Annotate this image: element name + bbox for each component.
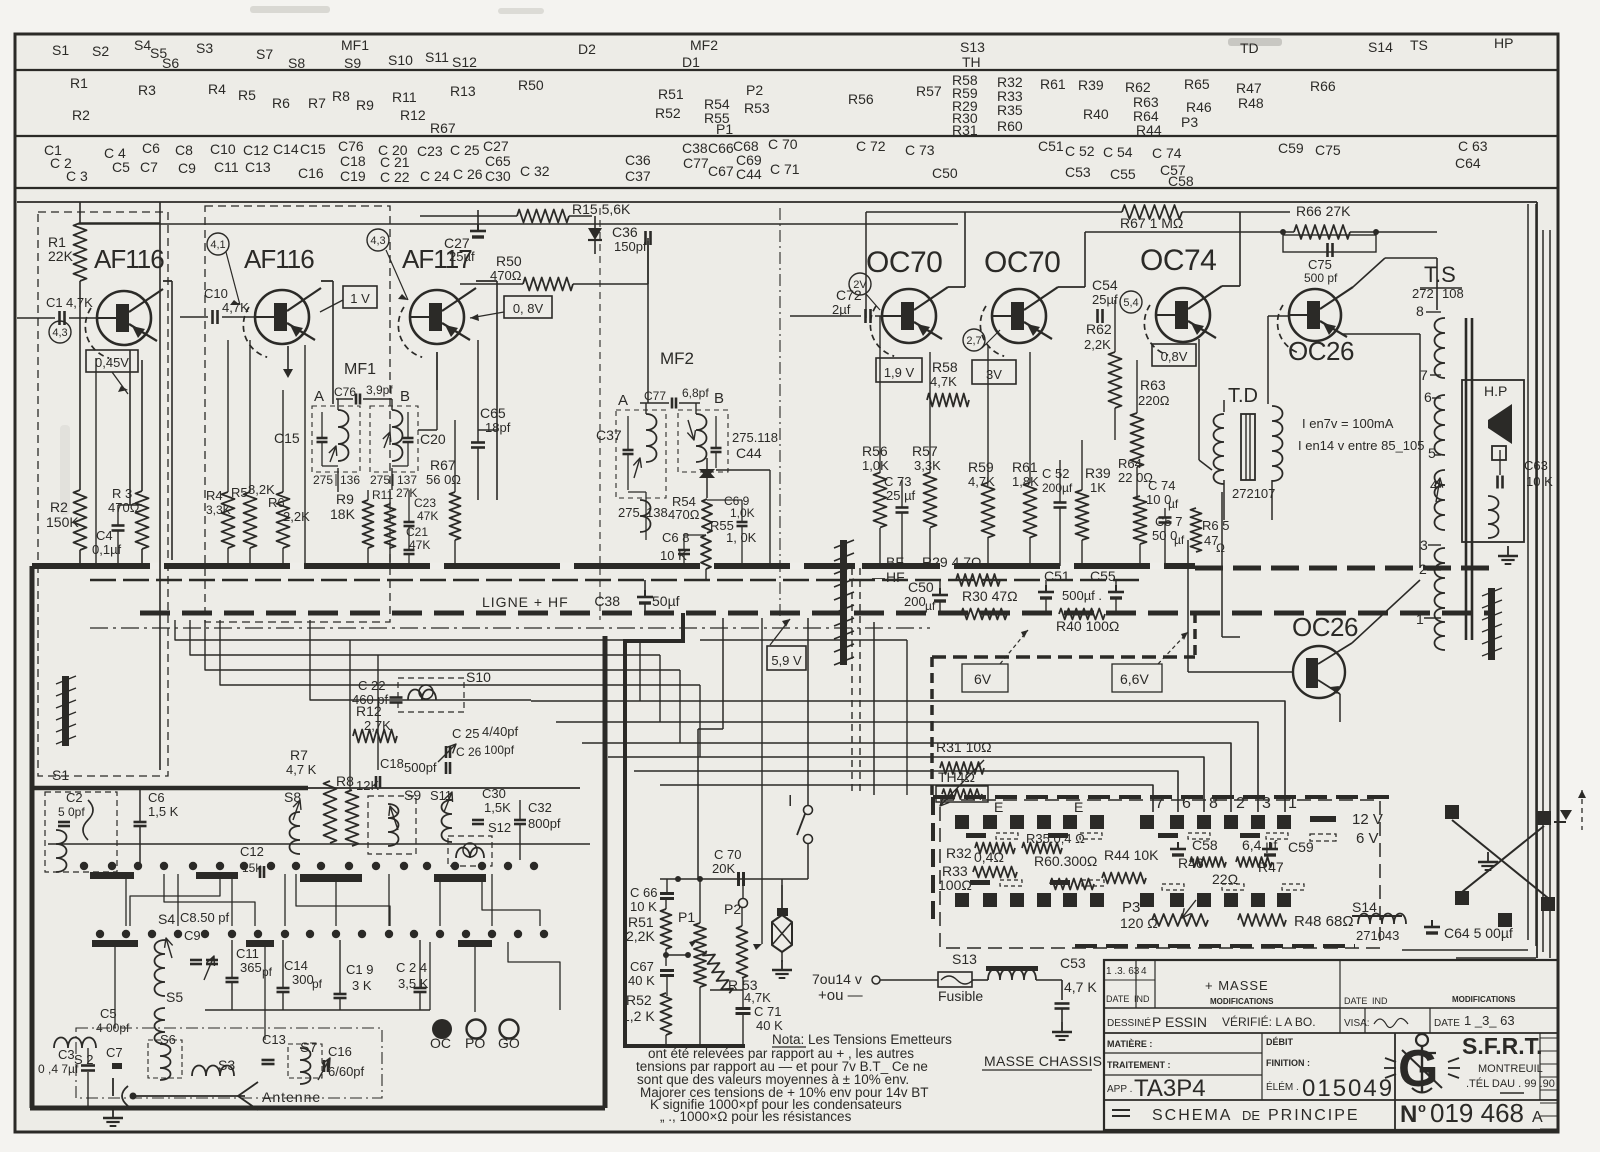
resistor R50 470ohm — [460, 238, 648, 291]
svg-text:T.S: T.S — [1424, 262, 1456, 287]
wire vibrator top — [781, 879, 783, 908]
svg-text:R40: R40 — [1083, 106, 1109, 122]
battery bottom dashed bus — [1075, 944, 1355, 948]
indicator OC dot — [430, 1019, 452, 1051]
svg-text:6 V: 6 V — [1356, 830, 1379, 847]
svg-text:S10: S10 — [388, 52, 413, 68]
svg-text:C 71: C 71 — [754, 1004, 781, 1019]
svg-text:TH4Ω: TH4Ω — [938, 769, 975, 785]
resistor R57 3,3K — [912, 352, 941, 566]
svg-text:R66 27K: R66 27K — [1296, 203, 1351, 219]
svg-text:C18: C18 — [340, 153, 366, 169]
legend 12V — [1310, 811, 1383, 828]
svg-text:108: 108 — [1442, 286, 1464, 301]
svg-text:2,2K: 2,2K — [283, 509, 310, 524]
wire heavy supply bus left — [32, 563, 855, 569]
svg-text:18pf: 18pf — [485, 420, 511, 435]
resistor R5 8,2K — [231, 340, 275, 566]
wire nest l4 — [220, 620, 700, 685]
svg-text:1: 1 — [1288, 795, 1297, 812]
svg-text:R29 4 7Ω: R29 4 7Ω — [922, 554, 982, 570]
svg-text:C38: C38 — [594, 593, 620, 609]
capacitor C14 300pf — [277, 940, 323, 1010]
title MONTREUIL — [1478, 1063, 1543, 1075]
svg-text:4 00pf: 4 00pf — [96, 1021, 130, 1035]
capacitor C67 40K — [628, 959, 674, 996]
wire nest l3 — [205, 620, 680, 670]
svg-text:MF1: MF1 — [344, 361, 376, 378]
svg-text:7: 7 — [1420, 367, 1428, 383]
svg-text:R1: R1 — [70, 75, 88, 91]
wire OC26 emitter down — [1258, 694, 1340, 722]
svg-text:2,2K: 2,2K — [1084, 337, 1111, 352]
wire P1 riser — [698, 618, 762, 879]
pot cage left border — [623, 613, 683, 1046]
band 2 labels R1-R66 — [70, 72, 1336, 138]
svg-text:R50: R50 — [518, 77, 544, 93]
wire staircase to battery col 7 — [660, 785, 1153, 812]
MF2 secondary arrow — [687, 420, 695, 440]
svg-text:R61: R61 — [1012, 459, 1038, 475]
svg-text:470Ω: 470Ω — [668, 507, 700, 522]
svg-text:S5: S5 — [166, 989, 183, 1005]
svg-text:Antenne: Antenne — [262, 1089, 321, 1105]
svg-text:R7: R7 — [308, 95, 326, 111]
wire nest connector v4 — [699, 685, 701, 757]
MF1 primary arrow — [329, 446, 337, 462]
svg-text:271043: 271043 — [1356, 928, 1399, 943]
speaker HP box — [1462, 380, 1524, 542]
capacitor C51 500uf — [1038, 568, 1070, 613]
svg-text:MODIFICATIONS: MODIFICATIONS — [1452, 995, 1516, 1004]
resistor R65 47ohm — [1191, 508, 1230, 555]
label -HF — [872, 569, 905, 585]
svg-text:C37: C37 — [625, 168, 651, 184]
svg-text:C65: C65 — [480, 405, 506, 421]
svg-text:R8: R8 — [332, 88, 350, 104]
resistor R55 1,0K — [701, 518, 757, 580]
svg-text:R44: R44 — [1136, 122, 1162, 138]
wire R1 top to rail — [80, 202, 160, 770]
svg-text:R52: R52 — [655, 105, 681, 121]
svg-text:C36: C36 — [625, 152, 651, 168]
title cell DATE IND — [1106, 994, 1150, 1004]
svg-text:S11: S11 — [425, 49, 449, 65]
MF2 terminal B label — [714, 390, 724, 407]
svg-text:OC26: OC26 — [1292, 612, 1358, 642]
wire MF1 down legs — [338, 468, 392, 492]
svg-text:3V: 3V — [986, 367, 1002, 382]
wire stage1 vert secondary — [95, 358, 97, 566]
svg-text:R59: R59 — [968, 459, 994, 475]
wire antenna stage top line — [32, 767, 580, 788]
svg-text:5,4: 5,4 — [1123, 297, 1138, 309]
title cell 1.3.63 — [1104, 966, 1155, 980]
svg-text:APP .: APP . — [1107, 1084, 1132, 1095]
capacitor C38 50uf — [594, 580, 679, 613]
inner schematic top border — [17, 202, 1537, 958]
svg-text:S8: S8 — [288, 55, 305, 71]
svg-text:4,3: 4,3 — [370, 235, 385, 247]
fuse S13 — [938, 951, 983, 1004]
transformer TD windings — [1214, 406, 1283, 484]
coil S2 — [54, 1038, 96, 1068]
stage box AF116-2 dashed — [205, 206, 390, 622]
resistor R67 1M top — [866, 205, 1290, 318]
voltage callout 0,8V OC74 — [1152, 344, 1196, 366]
battery terminal numbers — [1155, 795, 1297, 812]
capacitor C66 10K — [630, 879, 674, 914]
svg-text:R60: R60 — [997, 118, 1023, 134]
svg-text:136: 136 — [340, 473, 360, 487]
battery E labels — [994, 799, 1083, 815]
battery dashed bus top — [933, 795, 1390, 799]
svg-text:TRAITEMENT :: TRAITEMENT : — [1107, 1060, 1171, 1070]
svg-text:C54: C54 — [1092, 277, 1118, 293]
MF2 secondary dashed box — [678, 410, 728, 472]
transistor Q4 OC70 first — [866, 246, 948, 356]
svg-text:P3: P3 — [1122, 899, 1140, 916]
svg-text:R64: R64 — [1118, 456, 1142, 471]
resistor R15 5,6K — [420, 201, 631, 223]
svg-text:S.F.R.T.: S.F.R.T. — [1462, 1033, 1543, 1059]
transistor Q6 OC74 — [1140, 244, 1222, 355]
title block row lines — [1104, 1008, 1558, 1100]
speaker cone — [1488, 404, 1512, 460]
svg-text:C10: C10 — [210, 141, 236, 157]
svg-text:C36: C36 — [612, 224, 638, 240]
svg-text:C 3: C 3 — [66, 168, 88, 184]
svg-text:E: E — [1074, 799, 1083, 815]
svg-text:HP: HP — [1494, 35, 1513, 51]
resistor R1 22K — [48, 223, 87, 281]
wire right bundle top h1 — [1200, 155, 1528, 157]
wire staircase to battery col 1 — [531, 701, 1285, 812]
wire heavy bus dashed right section — [1195, 566, 1490, 571]
svg-text:0,45V: 0,45V — [95, 355, 129, 370]
capacitor C1 4,7K input — [17, 295, 97, 325]
wire nest l5 — [310, 620, 531, 700]
svg-text:+ou —: +ou — — [818, 987, 863, 1004]
wire nest connector v2 — [659, 655, 661, 722]
svg-text:4,1: 4,1 — [210, 239, 225, 251]
svg-text:300: 300 — [292, 972, 314, 987]
svg-text:1,9 V: 1,9 V — [884, 365, 915, 380]
svg-text:C4: C4 — [96, 528, 113, 543]
title DESSINE PESSIN — [1107, 1014, 1316, 1030]
capacitor C36 150pf — [612, 224, 651, 403]
svg-text:R67 1 MΩ: R67 1 MΩ — [1120, 215, 1183, 231]
svg-text:S13: S13 — [960, 39, 985, 55]
TS tap 5 — [1428, 445, 1436, 461]
wire switch drop 3 — [474, 947, 476, 1012]
svg-text:R9: R9 — [356, 97, 374, 113]
svg-text:1,5K: 1,5K — [484, 800, 511, 815]
wire MF2 B out right — [716, 470, 770, 566]
MF1 value 275 137 — [370, 473, 417, 487]
wire TD to OC26 vertical — [1222, 492, 1240, 637]
wire AF116-2 collector — [321, 281, 333, 404]
chassis hatch wall right — [1482, 588, 1502, 660]
svg-text:6,6V: 6,6V — [1120, 671, 1149, 687]
svg-text:6/60pf: 6/60pf — [328, 1064, 365, 1079]
resistor R66 27K — [1085, 203, 1437, 239]
svg-text:R6: R6 — [268, 495, 285, 510]
svg-text:Nota: Les Tensions Emetteurs: Nota: Les Tensions Emetteurs — [772, 1032, 952, 1047]
title TEL DAU — [1466, 1077, 1555, 1093]
coil S8 — [284, 789, 301, 854]
svg-text:A: A — [1532, 1109, 1543, 1126]
svg-text:OC26: OC26 — [1288, 336, 1354, 366]
capacitor C26 100pf — [446, 743, 515, 774]
wire switch interconnect verticals — [126, 874, 492, 926]
capacitor C52 200uf — [1042, 460, 1073, 566]
capacitor C27 25uf — [444, 210, 486, 264]
svg-text:TD: TD — [1240, 40, 1259, 56]
resistor R6 2,2K — [268, 390, 310, 566]
svg-text:10 K: 10 K — [1526, 474, 1553, 489]
svg-text:5 0pf: 5 0pf — [58, 805, 85, 819]
TS tap 4 — [1430, 477, 1443, 502]
potentiometer P1 — [678, 879, 706, 1046]
svg-text:275.118: 275.118 — [732, 430, 778, 445]
svg-text:ÉLÉM .: ÉLÉM . — [1266, 1080, 1299, 1093]
svg-text:275: 275 — [313, 473, 333, 487]
svg-text:4/40pf: 4/40pf — [482, 724, 519, 739]
svg-text:C59: C59 — [1288, 839, 1314, 855]
svg-text:OC74: OC74 — [1140, 244, 1216, 277]
title No 019468 — [1400, 1098, 1543, 1128]
transformer MF1 label — [344, 361, 376, 378]
resistor R60 300ohm — [1034, 853, 1097, 890]
svg-text:6,8pf: 6,8pf — [682, 386, 709, 400]
diode detector top — [588, 216, 602, 254]
ground vibrator — [772, 960, 792, 978]
transistor Q5 OC70 second — [980, 246, 1060, 356]
svg-text:C12: C12 — [243, 142, 269, 158]
capacitor C30 1,5K — [472, 786, 511, 824]
svg-text:500pf: 500pf — [404, 760, 437, 775]
svg-text:MASSE CHASSIS: MASSE CHASSIS — [984, 1053, 1102, 1069]
svg-text:C66: C66 — [708, 140, 734, 156]
svg-text:C16: C16 — [328, 1044, 352, 1059]
TS tap 1 — [1416, 611, 1424, 627]
capacitor C23 47K — [404, 490, 439, 526]
speaker coil — [1488, 496, 1499, 538]
MF1 primary coil — [338, 399, 349, 461]
svg-text:C75: C75 — [1315, 142, 1341, 158]
svg-text:C 63: C 63 — [1458, 138, 1488, 154]
svg-text:R5: R5 — [231, 485, 248, 500]
svg-text:IND: IND — [1134, 994, 1150, 1004]
battery contact square A — [1445, 805, 1459, 819]
svg-text:50µf: 50µf — [652, 593, 680, 609]
wire supply to C53 — [880, 979, 1062, 981]
capacitor C77 6,8pf — [640, 386, 709, 409]
svg-text:R44 10K: R44 10K — [1104, 847, 1159, 863]
svg-text:DATE: DATE — [1344, 996, 1367, 1006]
svg-text:S1: S1 — [52, 767, 69, 783]
svg-text:R4: R4 — [208, 81, 226, 97]
legend 6V — [1310, 830, 1379, 847]
svg-text:AF116: AF116 — [94, 244, 164, 274]
callout circled 2,7 — [963, 329, 1000, 351]
label I en14v — [1298, 438, 1425, 453]
svg-text:TS: TS — [1410, 37, 1428, 53]
chassis hatch wall center — [834, 540, 854, 665]
wire TD secondary down — [1224, 480, 1272, 520]
svg-text:4,7 K: 4,7 K — [286, 762, 317, 777]
resistor R31 10ohm — [936, 739, 992, 774]
svg-text:C 52: C 52 — [1065, 143, 1095, 159]
svg-text:1K: 1K — [1090, 480, 1106, 495]
svg-text:C 74: C 74 — [1152, 145, 1182, 161]
svg-text:R40 100Ω: R40 100Ω — [1056, 618, 1119, 634]
resistor R32 0,4ohm — [946, 843, 1015, 866]
svg-text:1: 1 — [1416, 611, 1424, 627]
MF2 primary coil — [640, 403, 657, 532]
svg-text:E: E — [994, 799, 1003, 815]
svg-text:R6 5: R6 5 — [1202, 518, 1229, 533]
svg-text:22K: 22K — [48, 248, 74, 264]
svg-text:1, 0K: 1, 0K — [726, 530, 757, 545]
svg-text:R62: R62 — [1086, 321, 1112, 337]
resistor R39 1K — [1076, 440, 1111, 566]
svg-text:R11: R11 — [392, 89, 417, 105]
MF2 primary dashed box — [616, 410, 666, 498]
capacitor C74 100uf — [1146, 478, 1179, 566]
wire switch drop 1 — [114, 947, 116, 1028]
capacitor C70 20K — [712, 847, 744, 886]
svg-text:Ω: Ω — [1216, 541, 1225, 555]
wire switch L-route 5 — [508, 942, 560, 1010]
svg-text:PO: PO — [465, 1035, 485, 1051]
svg-text:019 468: 019 468 — [1430, 1098, 1524, 1128]
resistor R67 560ohm — [426, 420, 461, 566]
svg-text:C11: C11 — [214, 159, 239, 175]
svg-text:MF2: MF2 — [690, 37, 718, 53]
wire AF116-2 emitter arrow down — [283, 346, 293, 378]
label 7ou14v — [812, 971, 880, 987]
capacitor C18 500pf — [376, 756, 437, 788]
coil S10 box — [398, 669, 491, 712]
resistor R33 100ohm — [938, 863, 1017, 893]
svg-text:C50: C50 — [932, 165, 958, 181]
wire switch L-route 2 — [296, 874, 390, 926]
battery contact square E2 — [1498, 913, 1512, 927]
switch row 2 wipers — [92, 940, 492, 947]
MF2 primary arrow — [633, 458, 641, 478]
capacitor C72 2uf — [790, 287, 988, 420]
MF1 secondary dashed box — [370, 406, 418, 472]
capacitor C55 — [1090, 568, 1124, 613]
svg-text:272: 272 — [1412, 286, 1434, 301]
svg-text:1,8K: 1,8K — [1012, 474, 1039, 489]
wire switch long rail y844 — [48, 843, 590, 845]
svg-text:MODIFICATIONS: MODIFICATIONS — [1210, 997, 1274, 1006]
svg-text:3: 3 — [1262, 795, 1271, 812]
svg-text:7: 7 — [1155, 795, 1164, 812]
svg-text:R47: R47 — [1236, 80, 1262, 96]
capacitor C71 40K — [710, 978, 783, 1046]
potentiometer P2 — [724, 885, 748, 978]
capacitor C22 460pf — [352, 678, 403, 707]
svg-text:365: 365 — [240, 960, 262, 975]
capacitor C4 0,1uf — [92, 505, 125, 566]
wire nest connector v1 — [639, 640, 641, 701]
svg-text:0, 8V: 0, 8V — [513, 301, 544, 316]
svg-text:R46: R46 — [1186, 99, 1212, 115]
svg-text:C 70: C 70 — [768, 136, 798, 152]
svg-text:C 73: C 73 — [905, 142, 935, 158]
svg-text:25µf: 25µf — [1092, 292, 1118, 307]
wire OC26 base line — [1268, 316, 1289, 404]
capacitor C24 3,5K — [396, 940, 429, 1010]
svg-text:C9: C9 — [178, 160, 196, 176]
wire nest down1 — [349, 640, 351, 790]
svg-text:100pf: 100pf — [484, 743, 515, 757]
title TRAITEMENT FINITION — [1107, 1058, 1310, 1070]
capacitor C32 800pf — [514, 800, 561, 860]
svg-text:N: N — [1400, 1101, 1417, 1128]
svg-text:6,4 µf: 6,4 µf — [1242, 837, 1277, 853]
capacitor C75 500pf — [1280, 229, 1379, 285]
coil S3 — [192, 1057, 235, 1076]
svg-text:C5: C5 — [100, 1006, 117, 1021]
title +MASSE — [1205, 978, 1269, 993]
ground antenna — [103, 1108, 123, 1126]
wire 6V dashed box top — [932, 655, 1195, 659]
svg-text:47K: 47K — [417, 509, 438, 523]
svg-text:C 52: C 52 — [1042, 466, 1069, 481]
svg-text:C19: C19 — [340, 168, 366, 184]
svg-text:A: A — [618, 392, 628, 409]
voltage callout 0,8V stage3 — [470, 296, 552, 321]
svg-text:S3: S3 — [196, 40, 213, 56]
capacitor C20 label — [420, 431, 446, 447]
svg-text:TH: TH — [962, 54, 981, 70]
title SCHEMA DE PRINCIPE — [1112, 1107, 1360, 1124]
capacitor C3 0,47uf — [38, 1047, 95, 1108]
wire switch lower rail — [205, 942, 430, 1010]
svg-text:18K: 18K — [330, 506, 356, 522]
choke coil after fuse — [986, 966, 1038, 980]
resistor R7 4,7K — [286, 747, 337, 843]
capacitor C50 200uf — [904, 579, 948, 613]
wire OC74 collector up — [1222, 212, 1240, 286]
svg-text:20K: 20K — [712, 861, 735, 876]
svg-text:6V: 6V — [974, 671, 992, 687]
wire bottom heavy ground bus — [30, 636, 605, 1108]
TS tap 3 — [1420, 537, 1428, 553]
svg-text:C11: C11 — [236, 946, 259, 961]
resistor R46 — [1178, 855, 1226, 871]
wire R51 junction — [663, 949, 691, 966]
transistor Q8 OC26 output — [1188, 612, 1358, 698]
wire C70 to P2 arrow — [753, 618, 762, 950]
callout circled 5,4 — [1120, 291, 1142, 313]
svg-text:S7: S7 — [256, 46, 273, 62]
capacitor C73 25uf — [884, 474, 916, 566]
coil S12 box — [448, 820, 511, 866]
wire minus rail to battery — [700, 640, 907, 795]
resistor R8 12K — [336, 773, 379, 846]
resistor R59 4,7K — [968, 420, 995, 566]
svg-text:800pf: 800pf — [528, 816, 561, 831]
battery cell squares row2 group2 — [1140, 893, 1291, 907]
svg-text:R35.0,4 Ω: R35.0,4 Ω — [1026, 831, 1085, 846]
resistor R47 — [1236, 857, 1284, 875]
